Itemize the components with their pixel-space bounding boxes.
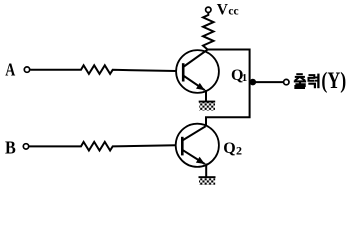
svg-text:V: V	[217, 2, 229, 19]
svg-text:2: 2	[236, 144, 242, 158]
svg-text:1: 1	[242, 72, 248, 84]
svg-text:(Y): (Y)	[321, 68, 346, 94]
svg-text:A: A	[5, 59, 15, 79]
svg-text:cc: cc	[228, 6, 238, 18]
svg-text:B: B	[5, 138, 16, 158]
svg-text:Q: Q	[223, 140, 235, 157]
